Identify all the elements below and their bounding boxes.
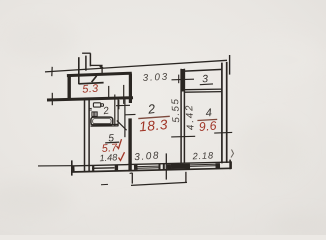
window glazing lines room 2 xyxy=(138,165,159,168)
svg-text:9.6: 9.6 xyxy=(198,119,217,135)
bottom-left outer wall thin extension xyxy=(38,165,71,167)
toilet cistern xyxy=(93,103,100,107)
room 3 bottom partition line A xyxy=(185,88,222,91)
corner shaft line B xyxy=(123,85,125,104)
corner shaft line A xyxy=(108,86,110,98)
bottom-left cut tick xyxy=(71,160,73,175)
vent stack end vertical xyxy=(101,67,103,74)
kitchen room 1 left wall xyxy=(67,74,70,99)
door jamb upper xyxy=(116,104,130,106)
dimension tick x166 xyxy=(165,153,167,179)
toilet bowl tab xyxy=(101,104,104,107)
bottom wall bottom edge xyxy=(71,168,232,172)
dimension cross after 3.03 horizontal xyxy=(172,78,195,81)
tick on wall 2-4 xyxy=(171,135,195,138)
living room left wall upper xyxy=(129,74,132,103)
bottom wall pier x215.5-220 xyxy=(216,163,221,168)
window mid line room 5 xyxy=(92,167,115,170)
bottom wall jamb x116 xyxy=(115,165,118,171)
svg-text:2.18: 2.18 xyxy=(191,150,214,161)
room 2 fraction bar xyxy=(138,116,170,118)
closet partition xyxy=(124,98,126,137)
room 3 bottom partition line B xyxy=(185,91,222,94)
lower-left outer wall line B xyxy=(88,99,90,171)
bottom wall pier x171-190 xyxy=(171,164,190,169)
vent stack vertical 1 xyxy=(78,57,80,84)
vent stack horizontal arm xyxy=(90,64,102,66)
small wall mark xyxy=(89,108,92,110)
right outer wall line B xyxy=(226,62,228,163)
svg-text:18.3: 18.3 xyxy=(138,117,168,134)
vent stack top bar xyxy=(82,52,91,54)
wall below room 1 xyxy=(47,98,133,100)
room 4 fraction bar xyxy=(197,119,217,120)
door jamb lower xyxy=(125,113,135,115)
bottom wall jamb x163.8 xyxy=(163,164,165,170)
left cut tick of wall below room 1 xyxy=(51,93,53,105)
vent stack vertical 3 xyxy=(89,53,91,66)
bottom wall jamb x167-171 xyxy=(167,164,171,169)
svg-text:4: 4 xyxy=(205,107,212,120)
bottom wall left end cap xyxy=(73,166,75,171)
room label 1 numeral xyxy=(92,76,97,82)
room 1 fraction bar xyxy=(79,83,104,84)
porch left vertical xyxy=(131,173,133,184)
stray pencil mark right of plan xyxy=(231,150,234,158)
room 3 top inner line xyxy=(185,69,222,71)
porch bottom line xyxy=(131,182,187,185)
svg-text:4.42: 4.42 xyxy=(184,103,197,130)
dimension cross after 3.03 vertical xyxy=(178,75,180,84)
porch small dash xyxy=(101,183,108,185)
wall between rooms 2 and 4 thick upper part xyxy=(181,69,184,92)
top outer dimension line xyxy=(45,60,227,72)
bottom wall top edge xyxy=(71,162,232,166)
radiator hatch box xyxy=(92,112,97,117)
porch left hook xyxy=(130,172,133,175)
svg-text:5.7: 5.7 xyxy=(101,142,118,155)
door leaf diagonal xyxy=(117,121,127,131)
room 5 fraction bar xyxy=(105,141,119,144)
red area figures xyxy=(82,83,217,161)
handwritten room numbers and dimension texts (dark ink) xyxy=(79,72,217,164)
top line left cut tick xyxy=(51,67,53,76)
living room left wall lower xyxy=(128,118,131,171)
svg-text:3.03: 3.03 xyxy=(142,72,169,84)
bottom wall jamb x93 xyxy=(92,165,94,171)
window glazing lines room 4 xyxy=(190,163,216,166)
svg-text:5.55: 5.55 xyxy=(170,97,182,123)
bathroom bottom partition line B xyxy=(91,125,119,127)
wall between rooms 2 and 4 line A xyxy=(180,69,182,164)
bath tub inner xyxy=(93,119,111,124)
top-right end tick xyxy=(229,55,231,75)
red check after 1.48 xyxy=(119,152,125,160)
bottom wall right end cap xyxy=(230,161,232,169)
right outer wall bottom corner cap xyxy=(229,160,231,170)
lower-left outer wall line A xyxy=(84,99,86,171)
svg-text:3.08: 3.08 xyxy=(134,150,161,163)
tick on right wall xyxy=(214,131,232,134)
room 3 underline xyxy=(200,83,213,86)
porch right vertical xyxy=(185,172,187,182)
bathroom right wall line A xyxy=(114,95,116,127)
bottom wall pier x134-137.5 xyxy=(134,165,138,170)
svg-text:5.3: 5.3 xyxy=(82,83,100,96)
vent stack vertical 2 xyxy=(85,56,87,71)
door jamb small vertical xyxy=(118,100,120,109)
right outer wall line A xyxy=(221,63,223,164)
bathroom right wall line B xyxy=(117,98,119,126)
bath tub outer xyxy=(91,117,113,125)
bottom wall jamb x159.5 xyxy=(159,164,161,170)
svg-text:3: 3 xyxy=(202,73,209,85)
vent stack end blob xyxy=(100,66,103,68)
kitchen room 1 top wall xyxy=(67,73,132,75)
bathroom bottom partition line A xyxy=(91,123,119,125)
red check near 5 xyxy=(117,139,122,148)
wall between rooms 2 and 4 line B xyxy=(183,69,185,164)
